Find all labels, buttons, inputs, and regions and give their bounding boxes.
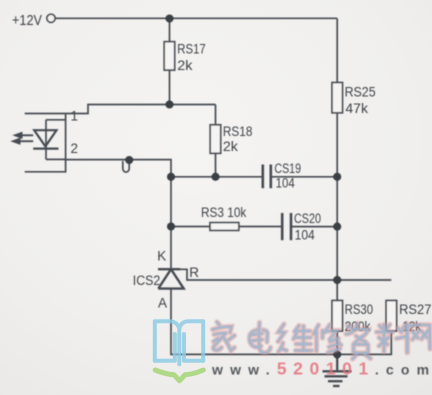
wire RS3 net <box>171 226 210 228</box>
schematic labels <box>12 12 431 334</box>
svg-text:R: R <box>189 265 199 280</box>
node RS18 bottom <box>211 173 219 181</box>
svg-text:2k: 2k <box>177 58 192 73</box>
node RS17 / pin1 rail <box>165 100 173 108</box>
node gate rail / bus <box>333 276 341 284</box>
svg-text:+12V: +12V <box>12 12 42 29</box>
loop tap on pin2 wire <box>123 161 129 172</box>
watermark chinese characters (blue strokes) <box>213 322 431 359</box>
svg-text:RS3 10k: RS3 10k <box>201 205 247 220</box>
svg-text:2k: 2k <box>223 139 238 154</box>
svg-text:104: 104 <box>276 176 296 191</box>
ground <box>323 354 352 386</box>
node pin2 / K line <box>167 173 175 181</box>
svg-text:CS20: CS20 <box>294 211 321 226</box>
capacitor CS19 <box>263 165 271 189</box>
watermark chinese characters: pink halo layer <box>213 322 431 359</box>
svg-text:47k: 47k <box>345 101 368 116</box>
node top rail / RS17 <box>165 14 173 22</box>
svg-text:RS30: RS30 <box>345 302 374 317</box>
svg-text:ICS2: ICS2 <box>133 273 161 288</box>
photodetector outer box <box>25 114 66 172</box>
wire K line <box>170 177 172 269</box>
light emission arrows <box>19 135 33 141</box>
wire top rail <box>56 17 338 19</box>
capacitor CS20 <box>282 213 291 240</box>
svg-text:CS19: CS19 <box>274 161 301 176</box>
photodiode D (triangle + bar) <box>33 130 58 148</box>
resistor RS18 <box>210 105 221 177</box>
power terminal +12V <box>47 14 55 22</box>
svg-text:A: A <box>158 296 167 311</box>
wire pin1 rail <box>66 105 216 114</box>
resistor RS17 <box>164 19 175 105</box>
watermark url www.520101.com <box>211 359 432 379</box>
svg-text:RS17: RS17 <box>177 41 205 56</box>
watermark logo: open book (cyan) <box>155 321 203 364</box>
node K line / RS3 <box>167 222 175 230</box>
svg-text:K: K <box>157 248 166 263</box>
svg-text:RS25: RS25 <box>345 85 376 100</box>
wire anode to bottom rail <box>171 289 391 355</box>
node loop tap <box>125 156 133 164</box>
photodetector inner box <box>46 120 66 160</box>
resistor RS3 <box>210 223 239 231</box>
svg-text:1: 1 <box>71 109 79 124</box>
node RS30 / ground <box>333 350 341 358</box>
svg-text:2: 2 <box>71 141 79 156</box>
wire pin2 <box>46 159 171 176</box>
node CS19 / bus <box>333 173 341 181</box>
wire gate (R) <box>180 269 391 280</box>
watermark logo: green swoosh <box>155 370 203 381</box>
svg-text:RS27: RS27 <box>399 302 431 317</box>
svg-text:www.520101.com: www.520101.com <box>211 359 432 379</box>
wire node line y177 (CS19 net) <box>171 176 262 178</box>
resistor RS30 <box>332 301 343 355</box>
svg-text:RS18: RS18 <box>223 124 253 139</box>
node CS20 / bus <box>333 223 341 231</box>
thyristor ICS2 <box>158 269 184 288</box>
svg-text:104: 104 <box>295 227 316 242</box>
wire right bus (RS25 branch) <box>336 19 338 301</box>
resistor RS25 <box>332 83 343 113</box>
resistor RS27 <box>386 301 397 332</box>
